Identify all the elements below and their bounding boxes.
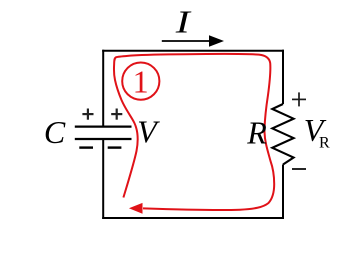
KVL loop 1 (red annotation path): [114, 54, 274, 210]
capacitor C (plates): [75, 127, 132, 139]
wire: bottom of loop: [102, 217, 284, 219]
svg-text:C: C: [44, 114, 66, 150]
node 1 (KVL loop number circle): [122, 63, 159, 100]
resistor plus sign: [292, 92, 306, 106]
wire: left lower (capacitor to bottom): [102, 139, 104, 219]
wire: left upper (top to capacitor): [102, 50, 104, 127]
svg-text:R: R: [246, 114, 267, 150]
current arrow I: [162, 40, 211, 42]
KVL loop arrowhead: [129, 203, 143, 214]
capacitor plus sign right: [111, 109, 122, 120]
capacitor plus sign left: [82, 109, 93, 120]
wire: top of loop: [102, 50, 284, 52]
resistor R (zigzag): [272, 104, 293, 165]
svg-text:I: I: [174, 4, 191, 40]
wire: right upper (top to resistor): [282, 50, 284, 104]
capacitor minus sign right: [108, 146, 122, 148]
svg-text:R: R: [319, 135, 330, 152]
capacitor minus sign left: [79, 146, 93, 148]
wire: right lower (resistor to bottom): [282, 165, 284, 220]
svg-text:1: 1: [133, 64, 149, 100]
resistor minus sign: [292, 168, 306, 170]
svg-text:V: V: [137, 114, 160, 150]
